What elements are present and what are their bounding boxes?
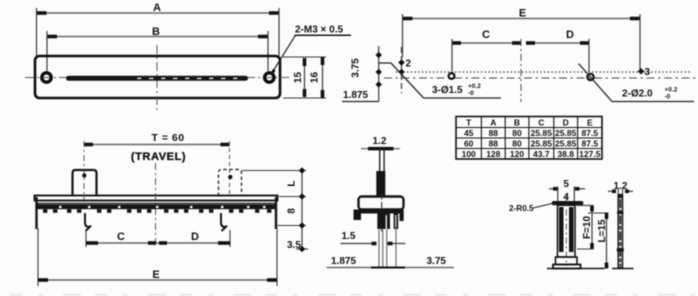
- svg-text:1.875: 1.875: [343, 90, 368, 101]
- svg-text:25.85: 25.85: [555, 128, 577, 138]
- svg-text:1.2: 1.2: [373, 136, 387, 147]
- svg-text:E: E: [152, 269, 159, 281]
- svg-text:5: 5: [563, 179, 569, 190]
- svg-text:88: 88: [489, 139, 499, 149]
- svg-text:2-R0.5: 2-R0.5: [509, 204, 534, 213]
- svg-text:87.5: 87.5: [582, 139, 599, 149]
- svg-text:1.5: 1.5: [342, 231, 356, 242]
- svg-text:D: D: [191, 231, 199, 243]
- svg-text:C: C: [538, 118, 544, 128]
- svg-text:T: T: [466, 118, 472, 128]
- svg-text:3.75: 3.75: [427, 256, 447, 267]
- svg-text:E: E: [587, 118, 593, 128]
- svg-text:-0: -0: [665, 94, 671, 101]
- svg-text:A: A: [153, 2, 161, 14]
- svg-text:2-Ø2.0: 2-Ø2.0: [622, 89, 653, 100]
- svg-text:127.5: 127.5: [579, 149, 601, 159]
- svg-text:(TRAVEL): (TRAVEL): [131, 151, 186, 163]
- svg-text:45: 45: [464, 128, 474, 138]
- svg-text:3: 3: [645, 67, 651, 78]
- svg-text:87.5: 87.5: [582, 128, 599, 138]
- svg-text:L: L: [287, 180, 298, 186]
- svg-text:C: C: [117, 231, 125, 243]
- svg-text:120: 120: [510, 149, 524, 159]
- svg-text:E: E: [519, 8, 526, 20]
- svg-text:8: 8: [287, 208, 298, 214]
- svg-text:L=15: L=15: [597, 219, 608, 243]
- svg-text:F=10: F=10: [582, 216, 593, 240]
- svg-text:60: 60: [464, 139, 474, 149]
- svg-text:100: 100: [462, 149, 476, 159]
- svg-text:T = 60: T = 60: [152, 132, 185, 144]
- svg-text:2: 2: [406, 59, 412, 70]
- svg-text:2-M3 × 0.5: 2-M3 × 0.5: [295, 25, 344, 36]
- svg-text:D: D: [563, 118, 569, 128]
- svg-text:38.8: 38.8: [557, 149, 574, 159]
- svg-text:+0.2: +0.2: [468, 83, 481, 90]
- svg-text:25.85: 25.85: [555, 139, 577, 149]
- svg-text:B: B: [514, 118, 520, 128]
- svg-text:43.7: 43.7: [533, 149, 550, 159]
- svg-text:88: 88: [489, 128, 499, 138]
- svg-text:A: A: [490, 118, 496, 128]
- svg-text:3.75: 3.75: [351, 58, 362, 78]
- svg-text:25.85: 25.85: [531, 128, 553, 138]
- svg-text:B: B: [152, 26, 160, 38]
- svg-text:-0: -0: [468, 90, 474, 97]
- svg-text:15: 15: [293, 72, 304, 84]
- svg-text:16: 16: [310, 72, 321, 84]
- svg-text:3.5: 3.5: [287, 240, 301, 251]
- svg-text:128: 128: [486, 149, 500, 159]
- svg-text:25.85: 25.85: [531, 139, 553, 149]
- svg-text:80: 80: [512, 128, 522, 138]
- svg-text:80: 80: [512, 139, 522, 149]
- svg-text:+0.2: +0.2: [665, 87, 678, 94]
- svg-text:D: D: [566, 29, 574, 41]
- svg-text:1.875: 1.875: [331, 256, 356, 267]
- svg-text:3-Ø1.5: 3-Ø1.5: [432, 85, 463, 96]
- svg-text:C: C: [482, 29, 490, 41]
